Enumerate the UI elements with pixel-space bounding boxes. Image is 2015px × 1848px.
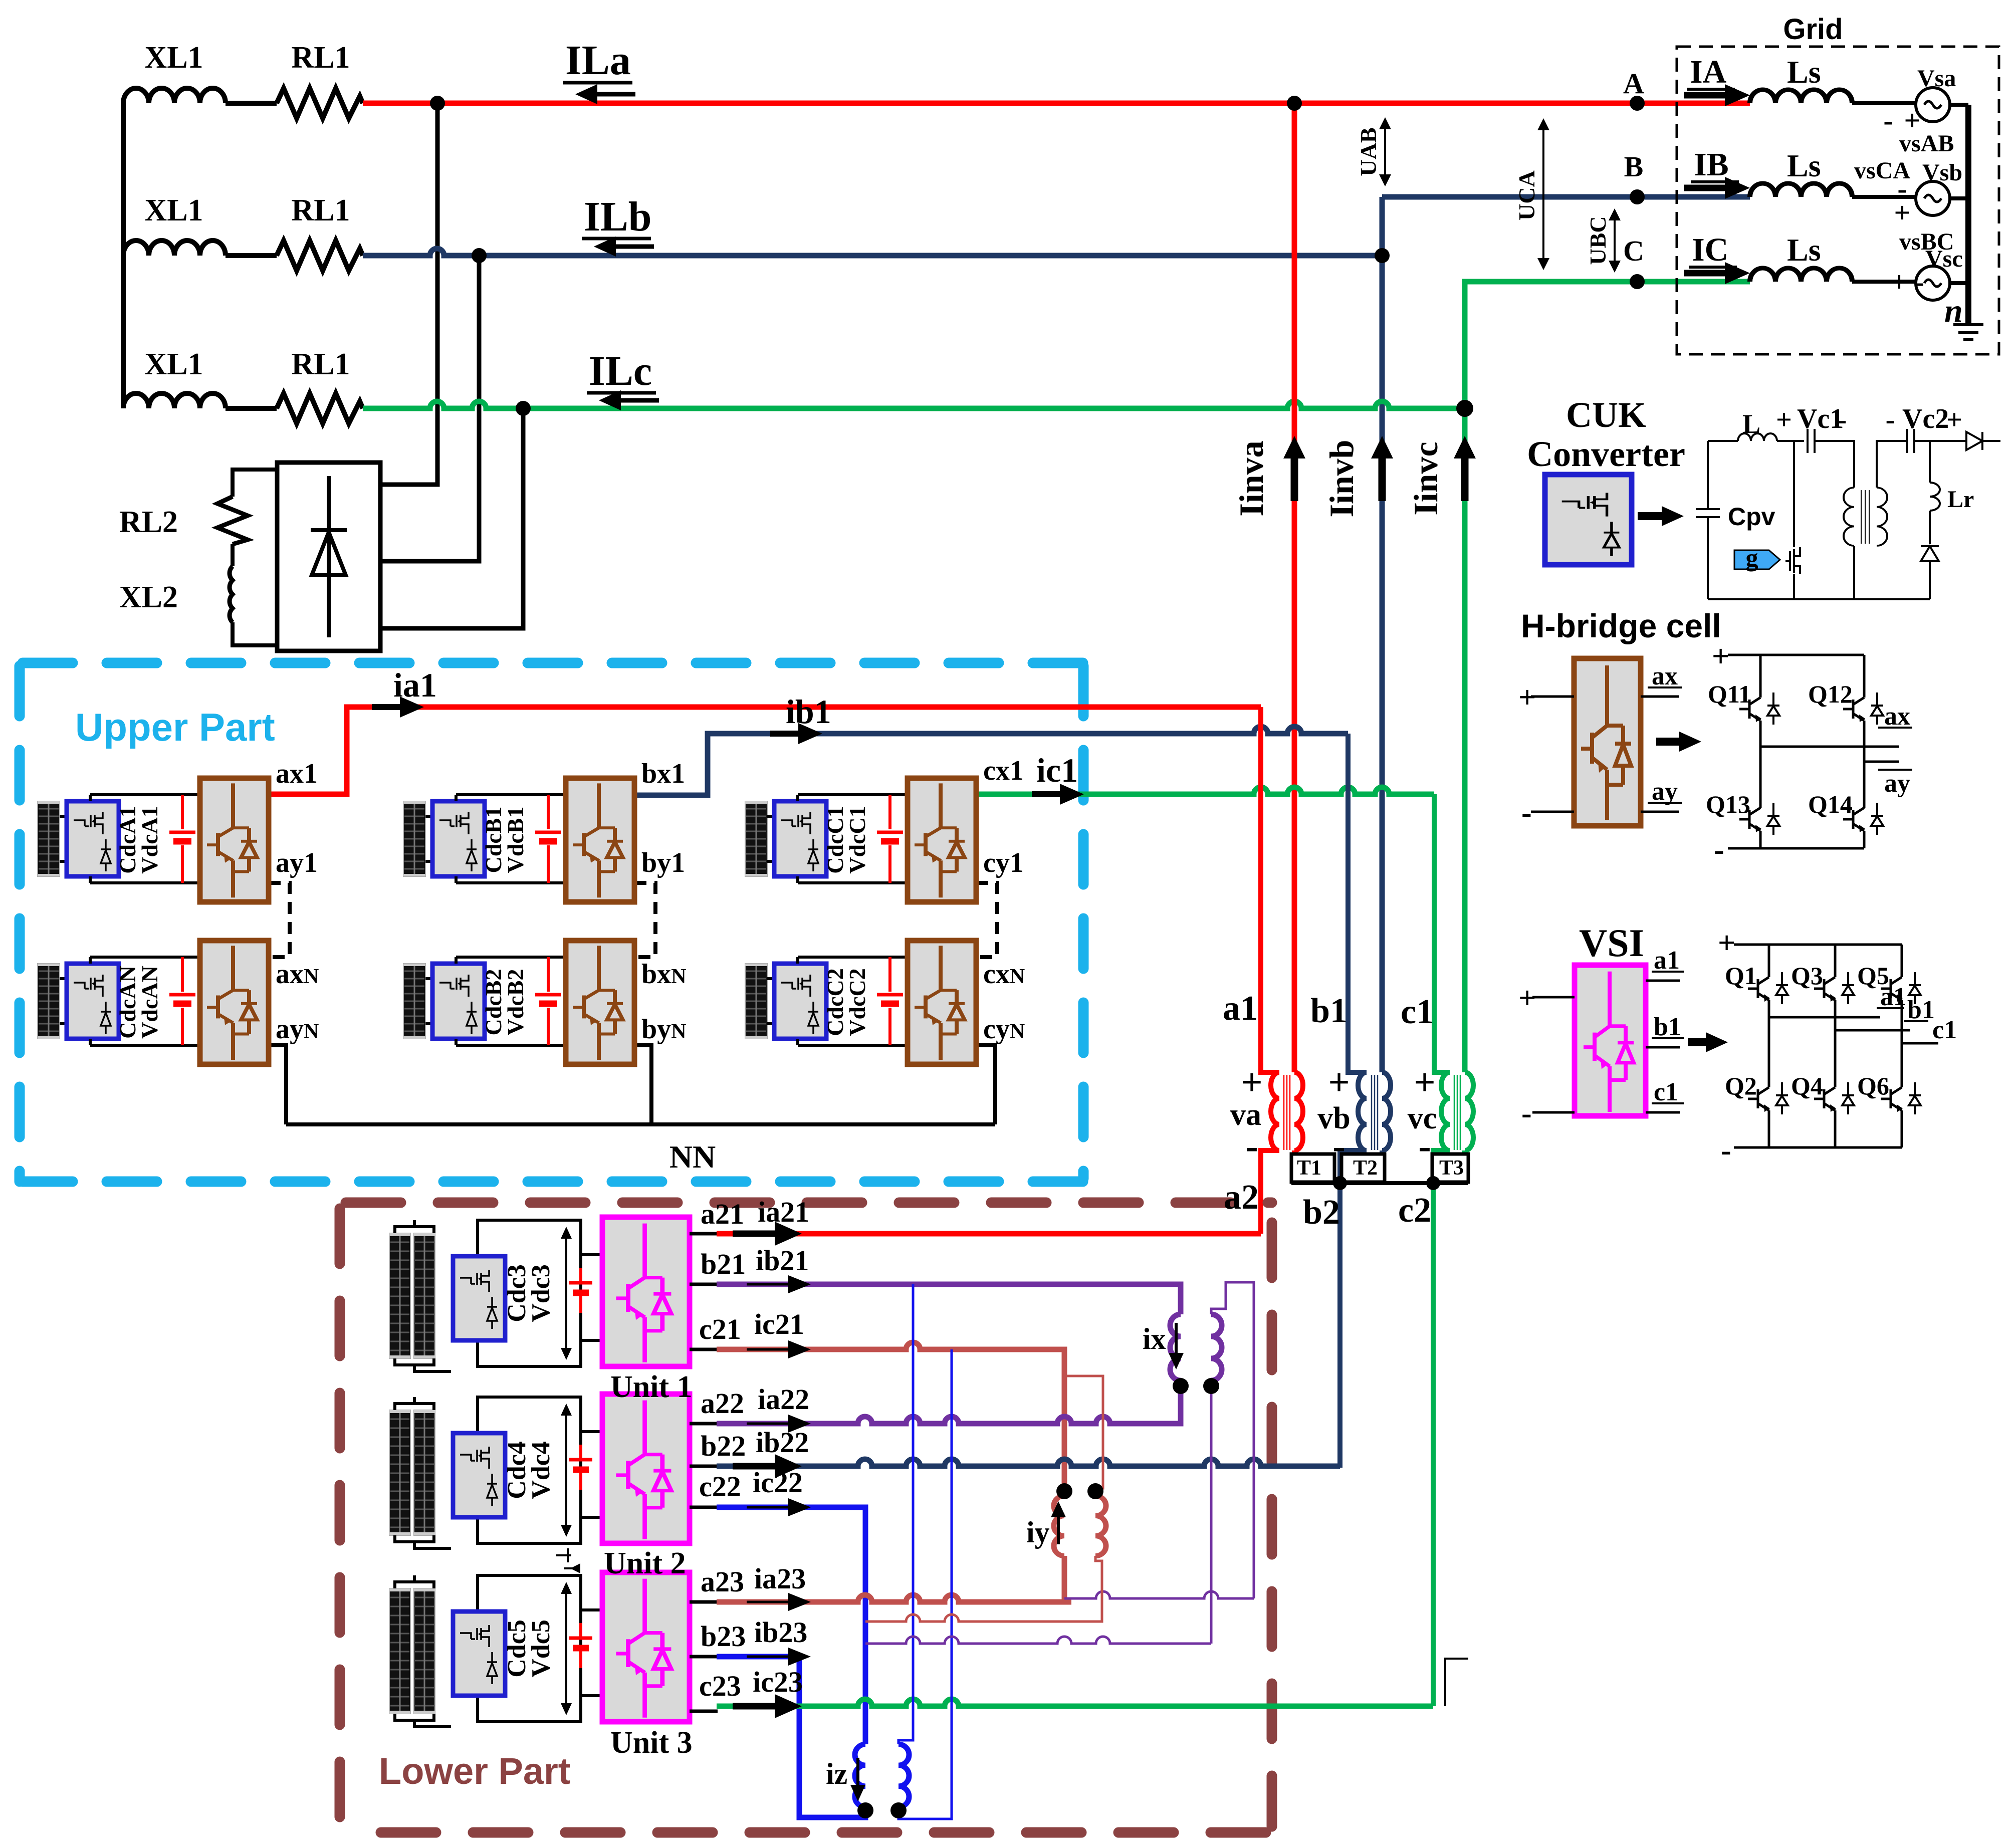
svg-text:-: - (1521, 796, 1532, 830)
svg-text:c2: c2 (1398, 1191, 1431, 1230)
svg-text:ia21: ia21 (758, 1196, 809, 1228)
svg-text:vc: vc (1408, 1101, 1437, 1135)
svg-text:VdcC1: VdcC1 (844, 806, 870, 873)
svg-text:n: n (1944, 293, 1963, 329)
svg-text:IA: IA (1690, 54, 1727, 90)
svg-text:bx1: bx1 (641, 758, 685, 789)
svg-text:ic22: ic22 (753, 1466, 803, 1499)
svg-text:+: + (1712, 639, 1729, 673)
svg-text:b1: b1 (1907, 996, 1935, 1024)
svg-text:C: C (1623, 235, 1644, 267)
svg-text:c22: c22 (699, 1470, 741, 1503)
svg-text:Vdc4: Vdc4 (527, 1441, 555, 1499)
svg-text:Upper Part: Upper Part (75, 705, 275, 749)
svg-text:Unit 3: Unit 3 (610, 1726, 693, 1760)
svg-text:Vc1: Vc1 (1797, 403, 1844, 434)
svg-text:Q4: Q4 (1791, 1072, 1823, 1100)
svg-text:ib23: ib23 (754, 1616, 807, 1649)
svg-text:b1: b1 (1654, 1013, 1681, 1041)
svg-text:+: + (1894, 196, 1910, 229)
svg-text:b22: b22 (701, 1430, 746, 1462)
svg-text:Lr: Lr (1947, 486, 1974, 513)
svg-text:VSI: VSI (1579, 921, 1644, 965)
svg-text:Iinvc: Iinvc (1407, 441, 1445, 515)
svg-text:-: - (1914, 266, 1924, 298)
svg-text:cy1: cy1 (983, 847, 1024, 878)
svg-text:ic23: ic23 (753, 1666, 803, 1698)
svg-text:XL1: XL1 (144, 347, 203, 381)
svg-text:T3: T3 (1439, 1157, 1464, 1180)
svg-text:a21: a21 (701, 1198, 744, 1230)
svg-text:a1: a1 (1223, 989, 1258, 1028)
svg-text:VdcC2: VdcC2 (844, 968, 870, 1036)
svg-text:+: + (1328, 1061, 1350, 1103)
svg-text:Q2: Q2 (1725, 1072, 1757, 1100)
svg-text:CUK: CUK (1566, 395, 1646, 435)
svg-text:-: - (1721, 1133, 1731, 1168)
svg-text:cx1: cx1 (983, 755, 1024, 786)
svg-text:b23: b23 (701, 1620, 746, 1653)
svg-text:UAB: UAB (1356, 127, 1381, 176)
svg-text:Unit 2: Unit 2 (604, 1546, 686, 1580)
svg-text:a1: a1 (1654, 946, 1680, 975)
svg-text:Vdc5: Vdc5 (527, 1620, 555, 1678)
svg-text:Ls: Ls (1787, 148, 1821, 183)
svg-text:c1: c1 (1654, 1078, 1678, 1106)
svg-text:ax: ax (1884, 702, 1910, 731)
svg-text:+: + (1241, 1061, 1262, 1103)
svg-text:-: - (1521, 1096, 1532, 1130)
svg-text:+: + (1718, 926, 1735, 960)
svg-text:IC: IC (1692, 232, 1728, 268)
svg-text:b1: b1 (1310, 992, 1348, 1030)
svg-text:T1: T1 (1297, 1157, 1321, 1180)
svg-text:Vc2: Vc2 (1902, 403, 1949, 434)
svg-text:Q14: Q14 (1808, 790, 1853, 818)
svg-text:+: + (1518, 981, 1536, 1015)
svg-text:va: va (1230, 1098, 1261, 1132)
svg-text:iy: iy (1026, 1516, 1050, 1549)
svg-text:g: g (1746, 544, 1758, 572)
svg-text:+: + (1891, 266, 1907, 298)
svg-text:a2: a2 (1224, 1178, 1259, 1217)
svg-text:ix: ix (1143, 1322, 1166, 1355)
svg-text:-: - (1714, 833, 1724, 867)
svg-text:c1: c1 (1401, 993, 1434, 1031)
svg-text:c21: c21 (699, 1313, 741, 1345)
svg-text:NN: NN (669, 1139, 716, 1175)
svg-text:-: - (1886, 404, 1895, 435)
svg-text:Q3: Q3 (1791, 962, 1823, 990)
svg-text:Lower Part: Lower Part (379, 1750, 570, 1792)
svg-text:ax1: ax1 (276, 758, 318, 789)
svg-text:RL1: RL1 (291, 41, 350, 75)
svg-text:UCA: UCA (1514, 170, 1539, 220)
svg-text:ax: ax (1652, 662, 1678, 690)
svg-text:UBC: UBC (1585, 216, 1611, 265)
svg-text:Q13: Q13 (1706, 790, 1750, 818)
svg-text:-: - (1883, 104, 1893, 137)
svg-text:VdcAN: VdcAN (137, 966, 162, 1039)
svg-text:Grid: Grid (1783, 13, 1843, 46)
svg-text:ia1: ia1 (393, 666, 437, 704)
svg-text:RL2: RL2 (119, 505, 178, 539)
svg-text:XL1: XL1 (144, 41, 203, 75)
svg-text:c1: c1 (1932, 1016, 1957, 1044)
svg-text:Q1: Q1 (1725, 962, 1757, 990)
svg-text:Unit 1: Unit 1 (610, 1370, 693, 1404)
svg-text:ILb: ILb (584, 193, 651, 240)
svg-text:Iinvb: Iinvb (1322, 440, 1361, 518)
svg-text:ib1: ib1 (786, 692, 831, 731)
svg-text:Vsa: Vsa (1917, 65, 1956, 92)
svg-text:H-bridge cell: H-bridge cell (1521, 607, 1721, 644)
svg-text:iz: iz (826, 1757, 847, 1790)
svg-text:a23: a23 (701, 1565, 744, 1598)
svg-text:Q11: Q11 (1708, 680, 1751, 708)
svg-text:ib21: ib21 (756, 1244, 809, 1277)
svg-text:ib22: ib22 (756, 1426, 809, 1459)
svg-text:by1: by1 (641, 847, 685, 878)
svg-text:ay1: ay1 (276, 847, 318, 878)
svg-text:ILc: ILc (589, 348, 652, 394)
svg-text:Vsb: Vsb (1922, 159, 1962, 186)
svg-text:b2: b2 (1303, 1193, 1340, 1232)
svg-text:A: A (1623, 67, 1644, 100)
svg-text:XL1: XL1 (144, 193, 203, 227)
svg-text:b21: b21 (701, 1248, 746, 1280)
svg-text:ia23: ia23 (754, 1562, 806, 1595)
svg-text:Iinva: Iinva (1232, 440, 1270, 516)
svg-text:Q6: Q6 (1857, 1072, 1889, 1100)
svg-text:VdcB1: VdcB1 (503, 807, 528, 873)
svg-text:+: + (1776, 404, 1792, 435)
svg-text:VdcA1: VdcA1 (137, 806, 162, 873)
svg-text:+: + (1518, 680, 1536, 715)
svg-text:ILa: ILa (565, 37, 631, 84)
svg-text:vb: vb (1317, 1101, 1350, 1135)
svg-text:ay: ay (1652, 777, 1678, 806)
svg-text:Ls: Ls (1787, 232, 1821, 268)
svg-text:Cpv: Cpv (1728, 503, 1775, 531)
svg-text:B: B (1624, 150, 1644, 183)
svg-text:ay: ay (1884, 769, 1910, 798)
svg-text:c23: c23 (699, 1670, 741, 1702)
svg-text:RL1: RL1 (291, 193, 350, 227)
svg-text:VdcB2: VdcB2 (503, 969, 528, 1036)
svg-text:L: L (1742, 409, 1760, 439)
svg-text:XL2: XL2 (119, 580, 178, 614)
svg-text:vsBC: vsBC (1899, 228, 1954, 255)
svg-text:Converter: Converter (1527, 434, 1685, 474)
svg-text:Q5: Q5 (1857, 962, 1889, 990)
svg-text:ic1: ic1 (1036, 751, 1078, 789)
svg-text:ic21: ic21 (754, 1308, 804, 1340)
svg-text:Vdc3: Vdc3 (527, 1264, 555, 1322)
svg-text:+: + (1904, 104, 1920, 137)
svg-text:T2: T2 (1353, 1157, 1378, 1180)
svg-text:Q12: Q12 (1808, 680, 1853, 708)
svg-text:+: + (1414, 1061, 1435, 1103)
svg-text:RL1: RL1 (291, 347, 350, 381)
svg-text:a22: a22 (701, 1387, 744, 1420)
svg-text:ia22: ia22 (758, 1383, 809, 1416)
svg-text:Ls: Ls (1787, 54, 1821, 90)
svg-text:IB: IB (1694, 146, 1729, 183)
